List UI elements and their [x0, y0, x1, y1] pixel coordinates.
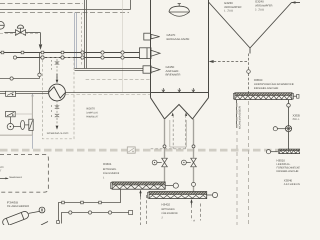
svg-text:H3500: H3500 — [254, 78, 263, 82]
svg-text:VERDAMPFER: VERDAMPFER — [224, 6, 242, 9]
svg-text:DAMPFLUVO: DAMPFLUVO — [86, 112, 98, 115]
svg-text:H3510: H3510 — [277, 158, 286, 162]
svg-text:BETTASCHEN-: BETTASCHEN- — [162, 208, 176, 211]
svg-text:FÖRDERSCHNECKE: FÖRDERSCHNECKE — [277, 165, 301, 169]
svg-text:H3402: H3402 — [162, 202, 171, 206]
svg-text:KESSELASCHE: KESSELASCHE — [277, 170, 299, 173]
svg-text:W3070: W3070 — [86, 108, 95, 111]
svg-text:H3401: H3401 — [103, 162, 112, 166]
svg-text:SCHEMA S-020: SCHEMA S-020 — [47, 132, 70, 135]
svg-text:G3150: G3150 — [166, 65, 175, 69]
svg-text:KÜHLSCHNECKE: KÜHLSCHNECKE — [162, 211, 178, 215]
svg-text:VERDAMPFER: VERDAMPFER — [255, 5, 273, 8]
svg-text:BETTASCHEN-: BETTASCHEN- — [103, 168, 117, 171]
svg-text:KÜHLSCHNECKE: KÜHLSCHNECKE — [103, 171, 119, 175]
svg-text:X3540: X3540 — [284, 178, 293, 182]
svg-text:2. ZUG: 2. ZUG — [255, 8, 264, 11]
svg-text:ZELLENRADSCHLEUSE: ZELLENRADSCHLEUSE — [293, 118, 301, 121]
svg-text:Siebrest: Siebrest — [9, 176, 22, 179]
svg-text:KESSELASCHE: KESSELASCHE — [254, 87, 279, 90]
svg-text:FE-ABSCHEIDER: FE-ABSCHEIDER — [7, 205, 29, 208]
svg-text:LEERZUGKÜHLSCHNECKE: LEERZUGKÜHLSCHNECKE — [254, 82, 294, 86]
svg-text:X3530: X3530 — [293, 113, 301, 117]
svg-text:F3450: F3450 — [7, 200, 19, 204]
svg-text:A: A — [193, 220, 195, 223]
svg-text:G3230: G3230 — [224, 1, 233, 5]
svg-text:1. ZUG: 1. ZUG — [224, 10, 233, 13]
svg-text:G3240: G3240 — [255, 0, 264, 4]
svg-text:G5170: G5170 — [167, 33, 176, 37]
svg-text:PRIMÄRLUFT: PRIMÄRLUFT — [86, 115, 98, 118]
svg-text:BRENNER: BRENNER — [166, 73, 181, 76]
svg-text:BIOGASLANZE: BIOGASLANZE — [167, 38, 190, 41]
svg-text:ANFAHR-: ANFAHR- — [166, 70, 180, 73]
svg-text:ASCHEBUNKER: ASCHEBUNKER — [284, 183, 300, 186]
svg-text:KÜHLWASSER: KÜHLWASSER — [238, 106, 241, 129]
